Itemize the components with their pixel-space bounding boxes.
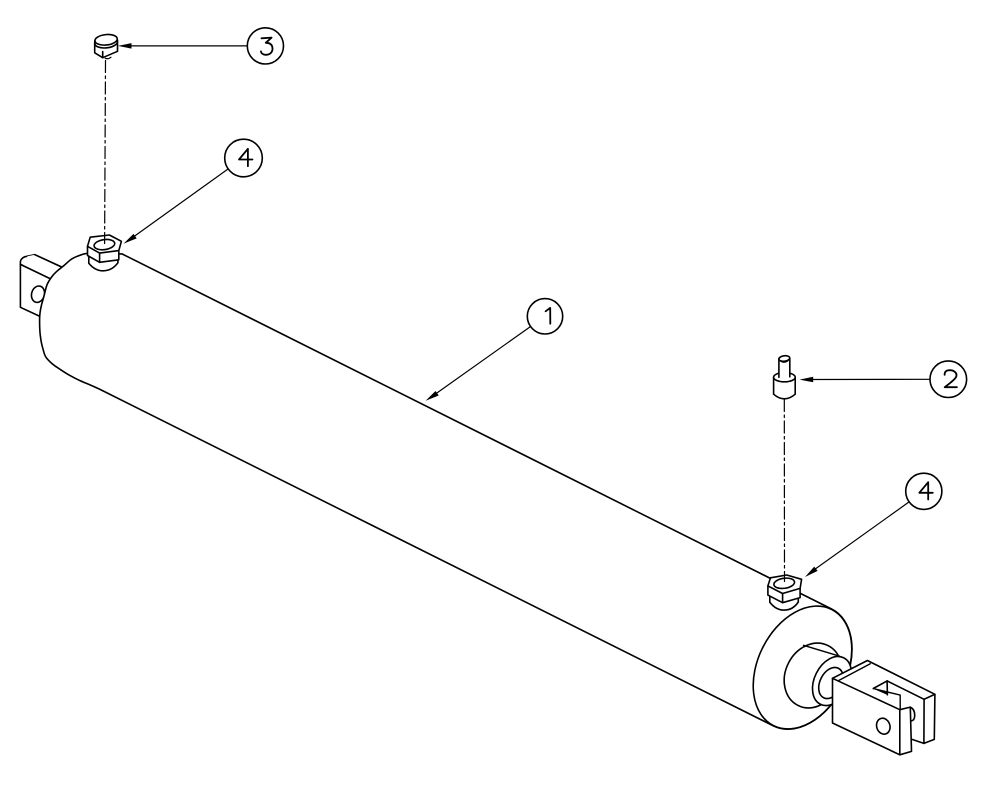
port fitting (4) at butt end bbox=[88, 235, 122, 271]
hex top face bbox=[768, 575, 802, 594]
centerline from fitting (2) to rod-end port bbox=[783, 400, 785, 582]
port fitting (4) at rod end bbox=[768, 575, 802, 610]
clevis top face bbox=[833, 661, 935, 710]
centerline from plug (3) to butt port bbox=[104, 61, 107, 244]
lug hole bbox=[30, 285, 47, 304]
callout 3: circle, leader and arrowhead bbox=[118, 28, 284, 64]
clevis pin hole bbox=[875, 716, 893, 735]
hex body bbox=[768, 575, 802, 603]
gland / rod guide at rod end bbox=[773, 633, 852, 718]
rear ear pin-hole (partially hidden) bbox=[910, 707, 915, 721]
clevis front ear end face bbox=[900, 707, 912, 755]
hex socket plug (3) bbox=[94, 33, 117, 58]
callout 2: circle, leader and arrowhead bbox=[800, 361, 967, 398]
clevis rear ear end face bbox=[924, 694, 935, 743]
hex top face bbox=[88, 235, 122, 253]
mounting lug (cross-tube tab) at butt end bbox=[20, 255, 66, 324]
cylinder tube (1): silhouette with butt-end cap arc and rod-end ellipse bbox=[40, 253, 872, 745]
breather fitting (2) bbox=[774, 355, 796, 399]
port hole bbox=[93, 238, 115, 251]
round boss bbox=[89, 254, 118, 271]
piston rod stub with chamfered end bbox=[804, 645, 860, 712]
rear ear bottom edge bbox=[911, 739, 924, 743]
clevis slot bbox=[873, 681, 887, 695]
rod-end cap face (full ellipse) bbox=[734, 589, 872, 745]
round boss bbox=[770, 593, 799, 610]
port hole bbox=[773, 577, 795, 590]
hex body bbox=[88, 235, 122, 262]
callout 4 (butt end): circle, leader and arrowhead bbox=[124, 139, 263, 244]
clevis front face bbox=[833, 678, 900, 755]
callout 1: circle, leader and arrowhead bbox=[426, 299, 563, 401]
callout 4 (rod end): circle, leader and arrowhead bbox=[805, 473, 942, 577]
rod clevis bbox=[833, 661, 935, 755]
